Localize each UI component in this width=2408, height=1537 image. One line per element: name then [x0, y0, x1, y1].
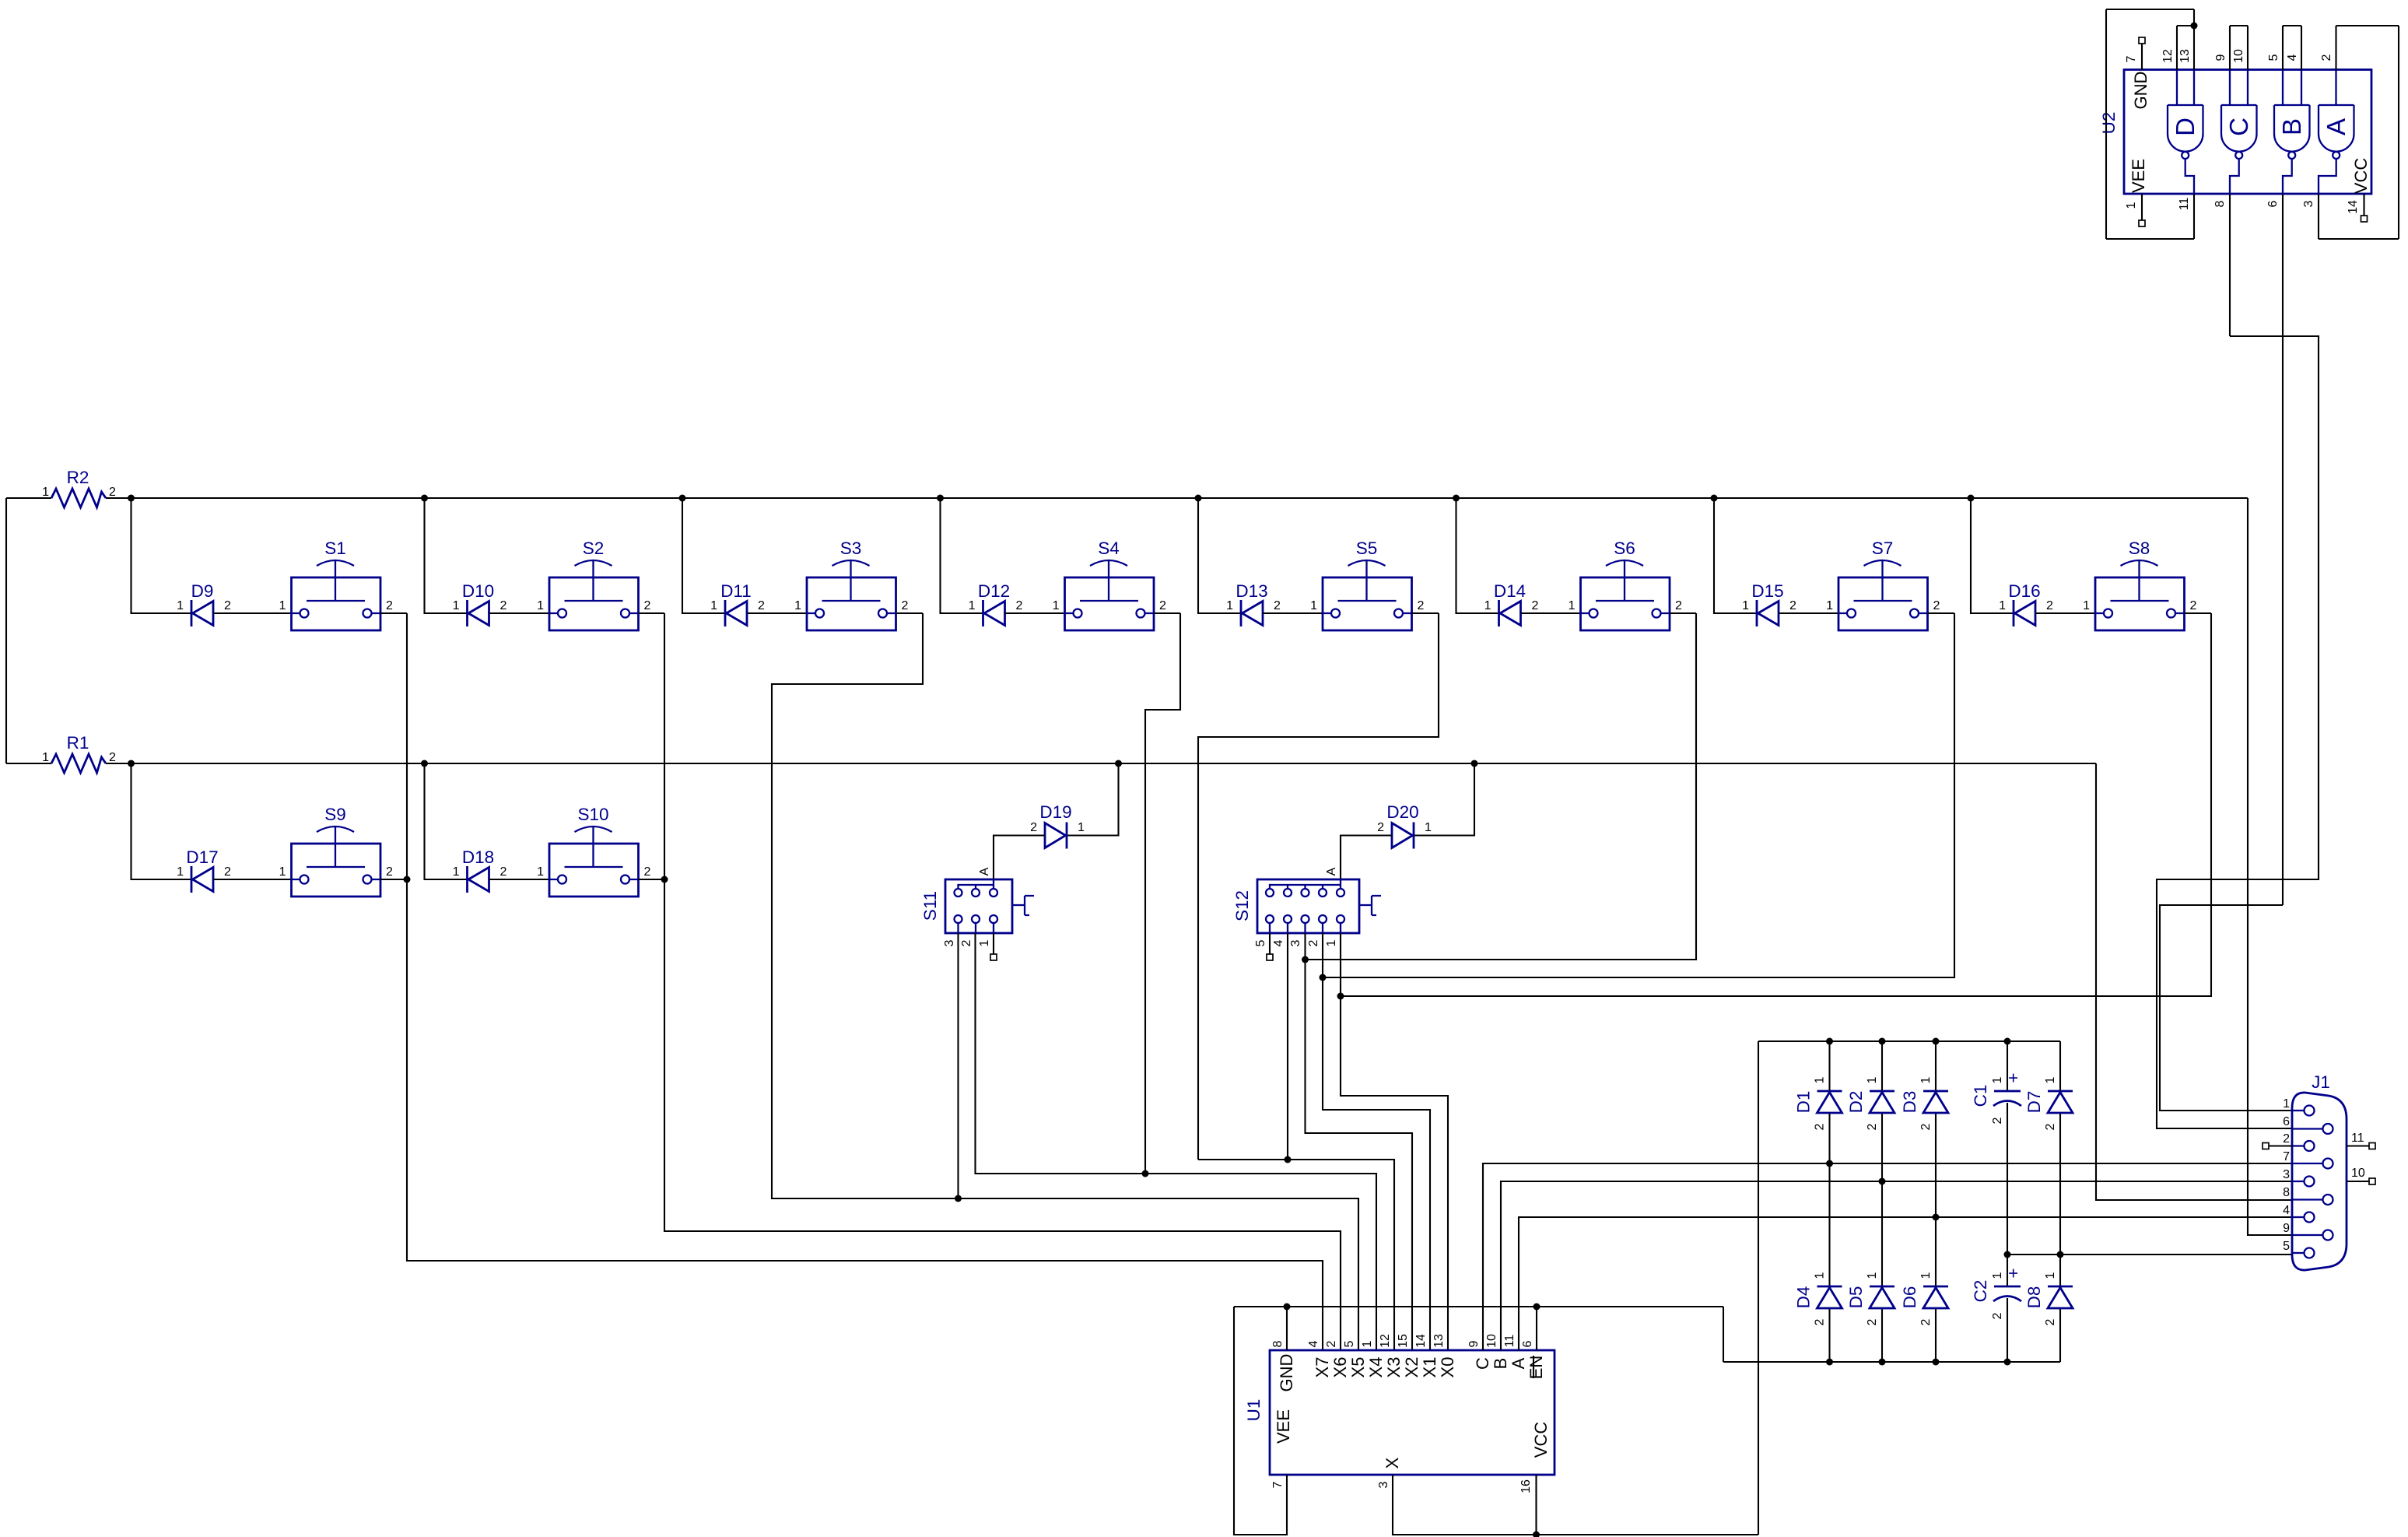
U2 gate A [2319, 70, 2354, 194]
pushbutton switch S8 [2083, 539, 2196, 630]
pin 11 output wire of gate D [2193, 194, 2195, 239]
svg-text:1: 1 [1919, 1272, 1933, 1279]
svg-text:1: 1 [2125, 202, 2138, 209]
svg-text:2: 2 [1307, 939, 1320, 946]
S11 contact stubs [959, 923, 994, 933]
node: top rail junction D1 [1826, 1038, 1833, 1045]
svg-text:2: 2 [902, 599, 909, 612]
svg-text:2: 2 [109, 751, 116, 764]
wire: X3 line to U1 [1198, 1160, 1394, 1350]
wire: S12 pin 4 column [1287, 933, 1288, 1160]
svg-text:9: 9 [2214, 54, 2227, 61]
node: S4 joins X4 net [1142, 1170, 1149, 1177]
svg-text:1: 1 [1310, 599, 1317, 612]
svg-text:1: 1 [1742, 599, 1749, 612]
svg-text:1: 1 [1226, 599, 1233, 612]
wire: S8 pin2 to column [2185, 612, 2212, 614]
wire: D17 to S9 [213, 879, 292, 880]
wire: D12 to S4 [1005, 612, 1065, 614]
svg-text:D11: D11 [720, 581, 752, 601]
wire: pin 10 stub [2247, 26, 2249, 70]
svg-text:D20: D20 [1386, 802, 1418, 822]
svg-text:S10: S10 [577, 805, 608, 824]
svg-text:3: 3 [1377, 1481, 1390, 1488]
S11 contacts [955, 889, 962, 897]
diode D1 [1794, 1076, 1842, 1130]
svg-text:D2: D2 [1846, 1091, 1866, 1114]
svg-text:2: 2 [386, 599, 393, 612]
svg-text:X1: X1 [1420, 1357, 1439, 1378]
svg-text:1: 1 [453, 599, 460, 612]
svg-text:2: 2 [644, 599, 651, 612]
svg-text:2: 2 [758, 599, 765, 612]
svg-text:S6: S6 [1614, 539, 1635, 558]
svg-text:2: 2 [2190, 599, 2197, 612]
wire: S7 pin2 to column [1928, 612, 1955, 614]
pushbutton switch S1 [279, 539, 393, 630]
wire: S10 pin2 to S2 column [639, 879, 665, 880]
svg-text:1: 1 [537, 865, 544, 879]
svg-text:5: 5 [2283, 1240, 2290, 1253]
svg-text:D12: D12 [978, 581, 1010, 601]
wire: left feedback rect left side [2105, 9, 2107, 239]
wire: D16 to S8 [2035, 612, 2095, 614]
diode D6 [1900, 1272, 1948, 1325]
pushbutton switch S6 [1569, 539, 1682, 630]
svg-text:13: 13 [2178, 49, 2192, 63]
wire: drop from bus to diode D11 [682, 498, 725, 613]
svg-text:S9: S9 [324, 805, 346, 824]
svg-text:2: 2 [2283, 1132, 2290, 1146]
svg-text:1: 1 [453, 865, 460, 879]
node: D2 anode tee [1879, 1178, 1886, 1185]
diode D4 [1794, 1272, 1842, 1325]
wire: S6 pin2 to column [1670, 612, 1696, 614]
svg-text:2: 2 [224, 865, 231, 879]
svg-text:2: 2 [1274, 599, 1281, 612]
node: top bus junction 2 [421, 495, 428, 502]
svg-text:3: 3 [2283, 1168, 2290, 1181]
svg-text:D8: D8 [2024, 1286, 2044, 1309]
node: R1 junction for D17 [128, 760, 135, 767]
J1 shell [2292, 1093, 2347, 1270]
wire: pin 5 stub [2282, 26, 2284, 70]
svg-text:9: 9 [2283, 1222, 2290, 1235]
svg-text:D6: D6 [1900, 1286, 1919, 1309]
wire: R1 to D20 cathode [1414, 763, 1474, 836]
svg-text:1: 1 [177, 599, 184, 612]
svg-text:1: 1 [279, 599, 286, 612]
svg-text:6: 6 [2266, 200, 2280, 207]
svg-text:2: 2 [2320, 54, 2333, 61]
svg-text:1: 1 [969, 599, 976, 612]
svg-text:X: X [1383, 1457, 1402, 1469]
svg-text:2: 2 [1919, 1318, 1933, 1325]
S11 actuator icon [1012, 896, 1034, 915]
svg-text:C2: C2 [1971, 1280, 1990, 1303]
svg-text:14: 14 [2347, 200, 2360, 214]
S11 internal common bus [959, 879, 994, 889]
wire: drop from bus to diode D15 [1714, 498, 1757, 613]
svg-text:X4: X4 [1366, 1357, 1386, 1378]
wire: drop from R1 to diode D18 [425, 763, 468, 879]
svg-text:1: 1 [1991, 1076, 2004, 1083]
svg-text:1: 1 [42, 751, 49, 764]
svg-text:4: 4 [2286, 54, 2299, 61]
svg-text:D19: D19 [1039, 802, 1071, 822]
svg-text:1: 1 [1053, 599, 1060, 612]
svg-text:3: 3 [1289, 939, 1302, 946]
node: bottom rail junction D5 [1879, 1359, 1886, 1366]
wire: J1 pin 5 line from C1/D7 tee [2007, 1254, 2292, 1255]
svg-text:C1: C1 [1971, 1085, 1990, 1107]
wire: drop from rect top to gate D input bridge [2193, 9, 2195, 26]
svg-text:5: 5 [2267, 54, 2280, 61]
wire: right feedback rect top [2336, 25, 2399, 26]
J1 pin 1 [2292, 1110, 2304, 1111]
svg-text:2: 2 [1866, 1318, 1879, 1325]
svg-text:S8: S8 [2129, 539, 2150, 558]
wire: EN/GND line [1234, 1306, 1723, 1307]
wire: EN/GND jog down to lower diode rail [1723, 1307, 1724, 1362]
svg-text:D1: D1 [1794, 1091, 1814, 1114]
svg-text:14: 14 [1414, 1334, 1428, 1348]
svg-text:VEE: VEE [2129, 159, 2148, 193]
svg-text:1: 1 [1425, 821, 1432, 834]
svg-text:2: 2 [109, 486, 116, 499]
svg-text:C: C [2224, 118, 2253, 136]
svg-text:D7: D7 [2024, 1091, 2044, 1114]
svg-text:D4: D4 [1794, 1286, 1814, 1309]
svg-text:+: + [2003, 1268, 2023, 1278]
svg-text:1: 1 [2044, 1076, 2057, 1083]
diode D11 [710, 581, 765, 626]
svg-text:1: 1 [537, 599, 544, 612]
node: D1 anode tee [1826, 1160, 1833, 1167]
node: top bus junction 7 [1711, 495, 1718, 502]
svg-text:VEE: VEE [1274, 1409, 1293, 1444]
svg-text:6: 6 [1521, 1340, 1534, 1347]
wire: S11 pin 3 column [957, 933, 959, 1198]
svg-text:S1: S1 [324, 539, 346, 558]
node: top rail junction C1 [2004, 1038, 2011, 1045]
wire: D14 to S6 [1521, 612, 1581, 614]
svg-text:D15: D15 [1751, 581, 1783, 601]
diode D2 [1846, 1076, 1895, 1130]
svg-text:B: B [2277, 118, 2306, 135]
wire: R1 to D19 cathode [1067, 763, 1119, 836]
wire: U1 EN pin 6 stub [1536, 1307, 1537, 1350]
node: top bus junction 8 [1968, 495, 1975, 502]
svg-text:A: A [1325, 867, 1338, 876]
J1 pin 4 [2292, 1216, 2304, 1218]
svg-text:3: 3 [943, 939, 956, 946]
svg-text:2: 2 [1016, 599, 1023, 612]
diode D12 [969, 581, 1023, 626]
wire: bridge pins 5-4 [2283, 25, 2301, 26]
svg-text:X2: X2 [1402, 1357, 1421, 1378]
wire: D7/D8 column [2059, 1041, 2061, 1091]
svg-text:1: 1 [794, 599, 801, 612]
wire: VEE loop pin 7 [1234, 1307, 1287, 1535]
svg-text:S7: S7 [1872, 539, 1894, 558]
svg-text:2: 2 [1675, 599, 1682, 612]
node: S8 joins S12 pin1 [1337, 993, 1344, 1000]
svg-text:C: C [1473, 1357, 1492, 1370]
wire: array bottom rail (GND) [1723, 1361, 2060, 1363]
svg-text:7: 7 [2125, 55, 2138, 62]
diode D8 [2024, 1272, 2073, 1325]
svg-text:13: 13 [1432, 1334, 1446, 1348]
svg-text:D3: D3 [1900, 1091, 1919, 1114]
pushbutton switch S9 [279, 805, 393, 897]
svg-text:R1: R1 [67, 733, 89, 753]
diode D7 [2024, 1076, 2073, 1130]
wire: R1 bus to right corner [106, 763, 2096, 764]
svg-text:D14: D14 [1494, 581, 1526, 601]
wire: D18 to S10 [489, 879, 550, 880]
svg-text:1: 1 [42, 486, 49, 499]
svg-text:U1: U1 [1244, 1399, 1264, 1422]
U2 pin 7 GND stub and terminal [2141, 44, 2143, 70]
J1 pin 9 [2292, 1234, 2322, 1236]
node: top bus junction 5 [1195, 495, 1202, 502]
wire: pin 9 stub [2229, 26, 2231, 70]
wire: S4 column jog [1145, 613, 1180, 1174]
node: S7 joins S12 pin2 [1320, 974, 1327, 981]
wire: S2 column to U1 X6 [664, 613, 1341, 1350]
node: GND joins EN line [1284, 1304, 1291, 1311]
svg-text:1: 1 [2283, 1097, 2290, 1111]
svg-text:R2: R2 [67, 468, 89, 487]
wire: S12 pin 1 column to U1 X0 [1341, 933, 1448, 1350]
wire: D9 to S1 [213, 612, 292, 614]
svg-text:D5: D5 [1846, 1286, 1866, 1309]
svg-text:B: B [1491, 1358, 1510, 1370]
diode D16 [1999, 581, 2053, 626]
U2 pin 1 VEE stub and terminal [2141, 194, 2143, 220]
wire: left edge to R1 pin1 [6, 763, 51, 764]
S12 contacts [1266, 889, 1274, 897]
svg-text:X0: X0 [1438, 1357, 1457, 1378]
svg-text:1: 1 [2044, 1272, 2057, 1279]
svg-text:1: 1 [2083, 599, 2090, 612]
wire: U1 GND pin 8 stub [1286, 1307, 1288, 1350]
svg-text:A: A [978, 867, 991, 876]
svg-text:EN: EN [1526, 1356, 1546, 1380]
svg-text:+: + [2003, 1072, 2023, 1083]
wire: top bus from R2 to right corner [106, 497, 2248, 499]
wire: D10 to S2 [489, 612, 550, 614]
svg-text:8: 8 [1271, 1340, 1285, 1347]
U2 body [2124, 70, 2371, 195]
wire: S7 column to S12 pin2 line [1323, 613, 1954, 977]
svg-text:2: 2 [644, 865, 651, 879]
svg-text:12: 12 [2161, 49, 2175, 63]
svg-text:1: 1 [1991, 1272, 2004, 1279]
wire: VCC riser to diode array top rail [1758, 1041, 1759, 1535]
U2 gate B [2274, 70, 2310, 194]
svg-text:1: 1 [1814, 1076, 1827, 1083]
wire: drop from bus to diode D10 [425, 498, 468, 613]
wire: bridge pins 9-10 [2230, 25, 2248, 26]
svg-text:10: 10 [2351, 1167, 2365, 1180]
wire: S11 pin 2 column to U1 X4 [976, 933, 1377, 1350]
pushbutton switch S4 [1053, 539, 1166, 630]
J1 pin 7 [2292, 1163, 2322, 1164]
svg-text:A: A [1509, 1357, 1528, 1369]
svg-text:S3: S3 [840, 539, 862, 558]
diode D20 [1377, 802, 1432, 849]
wire: D3/D6 column [1935, 1041, 1937, 1091]
wire: D19 anode to S11 pin A [994, 836, 1045, 880]
svg-text:10: 10 [1485, 1334, 1498, 1348]
svg-text:2: 2 [386, 865, 393, 879]
wire: D1/D4 column [1828, 1041, 1830, 1091]
J1 pin 5 [2292, 1252, 2304, 1254]
diode D5 [1846, 1272, 1895, 1325]
wire: S1 column to U1 X7 [407, 613, 1323, 1350]
svg-text:2: 2 [2044, 1123, 2057, 1130]
svg-text:D13: D13 [1236, 581, 1267, 601]
svg-text:X5: X5 [1348, 1357, 1368, 1378]
svg-text:1: 1 [1361, 1340, 1374, 1347]
svg-text:D16: D16 [2008, 581, 2040, 601]
svg-text:1: 1 [978, 939, 991, 946]
node: top bus junction 3 [679, 495, 686, 502]
wire: pin 4 stub [2301, 26, 2302, 70]
svg-text:1: 1 [1569, 599, 1576, 612]
svg-text:S4: S4 [1098, 539, 1120, 558]
wire: S1 pin2 to column [380, 612, 407, 614]
svg-text:5: 5 [1343, 1340, 1356, 1347]
svg-text:S12: S12 [1232, 890, 1252, 921]
wire: D2/D5 column [1881, 1041, 1883, 1091]
node: bottom rail junction D6 [1933, 1359, 1940, 1366]
S12 internal common bus [1270, 879, 1341, 889]
node: R1 junction for D18 [421, 760, 428, 767]
U1 body [1270, 1350, 1555, 1475]
svg-text:GND: GND [1277, 1354, 1296, 1392]
svg-text:7: 7 [1271, 1481, 1285, 1488]
svg-text:1: 1 [279, 865, 286, 879]
diode D18 [453, 847, 507, 893]
S11 pin 1 stub and terminal [993, 933, 994, 954]
svg-text:2: 2 [1991, 1312, 2004, 1319]
svg-text:2: 2 [1814, 1123, 1827, 1130]
wire: drop from R1 to diode D17 [131, 763, 192, 879]
wire: D11 to S3 [747, 612, 807, 614]
wire: S8 column to S12 pin1 line [1341, 613, 2211, 996]
diode D15 [1742, 581, 1796, 626]
node: R1 junction for D20 [1471, 760, 1478, 767]
svg-text:GND: GND [2131, 72, 2150, 110]
U2 gate D [2168, 70, 2203, 194]
svg-text:2: 2 [1991, 1117, 2004, 1124]
wire: drop from bus to diode D13 [1198, 498, 1241, 613]
svg-text:U2: U2 [2099, 112, 2119, 135]
svg-text:2: 2 [1532, 599, 1539, 612]
svg-text:2: 2 [1325, 1340, 1338, 1347]
node: top rail junction D2 [1879, 1038, 1886, 1045]
svg-text:1: 1 [1919, 1076, 1933, 1083]
svg-text:D17: D17 [186, 847, 218, 867]
wire: pin 12 stub [2176, 26, 2178, 70]
wire: top bus drop to J1 pin 9 [2248, 498, 2292, 1235]
svg-text:9: 9 [1467, 1340, 1481, 1347]
svg-text:VCC: VCC [1531, 1422, 1551, 1458]
svg-text:X6: X6 [1330, 1357, 1350, 1378]
svg-text:2: 2 [500, 865, 507, 879]
wire: S6 column to S12 pin3 line [1306, 613, 1697, 960]
wire: drop from bus to diode D9 [131, 498, 192, 613]
svg-text:6: 6 [2283, 1115, 2290, 1128]
pushbutton switch S2 [537, 539, 650, 630]
diode D3 [1900, 1076, 1948, 1130]
svg-text:2: 2 [2046, 599, 2053, 612]
wire: left edge vertical joining R2 and R1 [5, 498, 7, 763]
node: top bus junction 4 [937, 495, 944, 502]
svg-text:8: 8 [2213, 200, 2227, 207]
svg-text:A: A [2322, 118, 2350, 135]
diode D9 [177, 581, 231, 626]
wire: D13 to S5 [1263, 612, 1323, 614]
wire: D20 anode to S12 pin A [1341, 836, 1392, 880]
J1 pin 11 stub and terminal [2347, 1145, 2369, 1146]
wire: right feedback rect bottom [2319, 238, 2399, 240]
svg-text:2: 2 [500, 599, 507, 612]
wire: right feedback rect right side [2398, 26, 2399, 239]
wire: S5 column jog [1198, 613, 1439, 1160]
wire: left edge to R2 pin1 [6, 497, 51, 499]
svg-text:2: 2 [1377, 821, 1384, 834]
wire: U1 C pin 9 to J1 pin 7 [1483, 1163, 2292, 1350]
wire: U1 VCC pin 16 stub [1535, 1475, 1537, 1535]
node: R1 junction for D19 [1115, 760, 1122, 767]
wire: pin 13 stub [2193, 26, 2195, 70]
svg-text:4: 4 [1272, 939, 1285, 946]
svg-text:X7: X7 [1313, 1357, 1332, 1378]
node: S6 joins S12 pin3 [1302, 956, 1309, 963]
S11 body [945, 879, 1012, 933]
resistor R2 [42, 468, 116, 507]
wire: bridge pins 12-13 [2177, 25, 2194, 26]
diode D17 [177, 847, 231, 893]
svg-text:2: 2 [1814, 1318, 1827, 1325]
svg-text:D: D [2171, 118, 2199, 136]
node: C1 bottom tee to J1 pin 5 [2004, 1251, 2011, 1258]
node: bottom rail junction C2 [2004, 1359, 2011, 1366]
svg-text:11: 11 [1503, 1335, 1516, 1348]
pushbutton switch S3 [794, 539, 908, 630]
wire: C1/C2 column [2007, 1041, 2008, 1091]
J1 pin 6 [2292, 1128, 2322, 1129]
node: top bus junction 6 [1453, 495, 1460, 502]
svg-text:8: 8 [2283, 1186, 2290, 1199]
svg-text:2: 2 [2044, 1318, 2057, 1325]
svg-text:16: 16 [1519, 1479, 1533, 1493]
wire: drop from bus to diode D16 [1971, 498, 2014, 613]
node: D7 anode tee to J1 pin 5 [2057, 1251, 2064, 1258]
wire: left feedback rect top [2106, 9, 2194, 10]
svg-text:2: 2 [224, 599, 231, 612]
svg-text:15: 15 [1397, 1334, 1410, 1348]
capacitor C2 [1971, 1268, 2023, 1319]
svg-text:1: 1 [1866, 1272, 1879, 1279]
svg-text:7: 7 [2283, 1150, 2290, 1163]
svg-text:11: 11 [2178, 198, 2191, 211]
svg-text:12: 12 [1379, 1334, 1392, 1348]
